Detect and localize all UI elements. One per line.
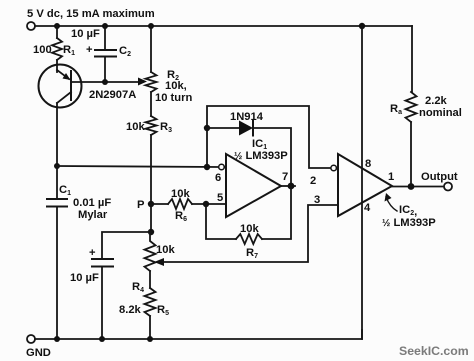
svg-text:Mylar: Mylar [78, 209, 108, 221]
wire anode to diode [207, 127, 239, 129]
svg-text:nominal: nominal [419, 107, 462, 119]
wire R6 to pin5 node [192, 203, 226, 205]
wire R2 to R3 [150, 92, 152, 116]
node pin7 [288, 183, 295, 190]
resistor Ra [406, 92, 417, 122]
wire P to R6 [151, 203, 168, 205]
node P [148, 201, 154, 207]
svg-text:10k,: 10k, [165, 80, 187, 92]
wire rail to R1 [56, 26, 58, 38]
wire IC2 V+/gnd vertical [361, 26, 363, 339]
resistor R5 [145, 288, 156, 316]
node top rail / C2 [102, 23, 108, 29]
node C2/base [102, 79, 108, 85]
node gnd C1 [54, 336, 60, 342]
GND terminal [27, 335, 35, 343]
node top rail / R1 [54, 23, 60, 29]
wire diode cathode to pin7 [253, 128, 291, 186]
svg-text:8: 8 [365, 158, 371, 170]
node top rail / IC2 V+ [359, 23, 365, 29]
potentiometer R4 [145, 232, 156, 271]
resistor R7 [236, 234, 262, 244]
svg-text:2: 2 [310, 175, 316, 187]
wiper arrow R4 [154, 258, 164, 266]
op-amp IC1 [226, 154, 281, 217]
svg-text:5: 5 [217, 192, 223, 204]
arrow to IC2 [386, 197, 397, 211]
bubble pin 6 [219, 164, 225, 170]
resistor R6 [168, 199, 192, 209]
svg-text:½ LM393P: ½ LM393P [382, 217, 436, 229]
svg-text:2N2907A: 2N2907A [89, 89, 136, 101]
wire node to C3 [102, 232, 151, 259]
node diode anode [204, 125, 210, 131]
svg-text:SeekIC.com: SeekIC.com [399, 344, 469, 358]
node pin6 [204, 164, 210, 170]
wire pin 6 line [57, 166, 219, 167]
svg-text:10 turn: 10 turn [155, 92, 192, 104]
svg-text:0.01 µF: 0.01 µF [73, 197, 111, 209]
svg-text:Output: Output [421, 171, 458, 183]
svg-text:P: P [137, 199, 145, 211]
wire R5 to ground rail [149, 316, 151, 339]
svg-text:100: 100 [33, 44, 52, 56]
svg-text:½ LM393P: ½ LM393P [234, 150, 288, 162]
transistor Q1 2N2907A [39, 65, 82, 108]
svg-text:3: 3 [314, 194, 320, 206]
wire top rail [35, 25, 412, 27]
svg-text:10k: 10k [240, 223, 259, 235]
node pin5 [203, 201, 209, 207]
wire bubble to IC2 [337, 167, 339, 169]
capacitor C3 10uF [92, 259, 113, 267]
wire Ra to output [410, 122, 412, 186]
svg-text:5 V dc, 15 mA maximum: 5 V dc, 15 mA maximum [27, 8, 155, 20]
diode D1 1N914 [239, 121, 253, 136]
wire ground rail [35, 330, 362, 339]
wire R3 to node P [150, 135, 152, 204]
resistor R1 [52, 38, 62, 60]
svg-text:GND: GND [26, 347, 51, 359]
wire bubble to IC1 [224, 166, 226, 168]
wire Q1 base to R2 wiper [71, 81, 142, 83]
svg-text:10k: 10k [156, 244, 175, 256]
wiper arrow R2 [138, 78, 147, 86]
svg-text:4: 4 [364, 202, 371, 214]
wire R7 to pin7 [262, 186, 291, 239]
svg-text:1N914: 1N914 [230, 111, 264, 123]
svg-text:1: 1 [388, 171, 394, 183]
wire C3 to ground rail [101, 267, 103, 340]
bubble pin 2 [331, 165, 337, 171]
svg-text:2.2k: 2.2k [425, 95, 448, 107]
op-amp IC2 [338, 154, 392, 216]
capacitor C1 [47, 199, 67, 207]
wire rail to R2 [150, 26, 152, 72]
wire C2 to base node [104, 57, 106, 83]
svg-text:8.2k: 8.2k [119, 304, 142, 316]
node 10uF cap / R4 [148, 229, 154, 235]
wire rail to C2 [104, 26, 106, 50]
wire C1 top [56, 166, 58, 199]
wire IC1 output [281, 185, 295, 187]
node output / Ra [408, 183, 415, 190]
wire IC2 output [392, 186, 444, 188]
wire C1 to ground rail [56, 207, 58, 340]
svg-text:10k: 10k [171, 188, 190, 200]
svg-text:7: 7 [282, 171, 288, 183]
node C1 / pin6 [54, 163, 60, 169]
svg-text:10 µF: 10 µF [70, 272, 99, 284]
wire P to R4 node [150, 204, 152, 232]
potentiometer R2 [146, 72, 157, 92]
wire R4 to R5 [149, 271, 151, 288]
wire collector/C1 node [56, 103, 58, 166]
resistor R3 [146, 116, 157, 135]
+5V terminal [27, 22, 35, 30]
output terminal [444, 183, 452, 191]
node gnd R5 [147, 336, 153, 342]
wire pin6 box to diode [207, 106, 331, 168]
capacitor C2 [95, 50, 116, 57]
wire rail to Ra [411, 26, 413, 92]
wire R4 wiper to IC2 pin3 [163, 205, 338, 262]
svg-text:6: 6 [215, 172, 221, 184]
node gnd C3 [99, 336, 105, 342]
svg-text:10k: 10k [126, 121, 145, 133]
wire pin5 to R7 [206, 204, 236, 239]
svg-text:10 µF: 10 µF [71, 28, 100, 40]
wire R1 to Q1 emitter [56, 60, 58, 72]
svg-text:+: + [86, 44, 93, 56]
svg-text:IC2,: IC2, [399, 204, 417, 218]
node top rail / R2 [148, 23, 154, 29]
svg-text:+: + [89, 247, 96, 259]
